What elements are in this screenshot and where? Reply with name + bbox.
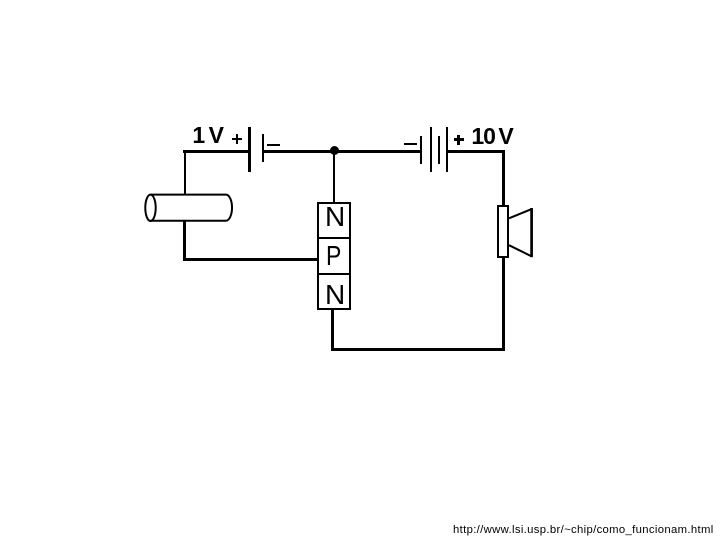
speaker body rectangle xyxy=(497,205,509,257)
wire: top-left horizontal to battery B1 xyxy=(183,150,249,153)
wire: transistor bottom down xyxy=(331,310,334,350)
battery B2 plate 4 (long thick) xyxy=(446,127,449,172)
minus sign of battery B1 xyxy=(267,144,281,146)
wire: left vertical from corner down to microphone xyxy=(184,150,187,195)
battery B2 plate 3 (short) xyxy=(438,136,440,164)
wire: horizontal into P layer xyxy=(183,258,317,261)
wire: junction node down to transistor xyxy=(333,153,335,203)
wire: right vertical from speaker down to bottom wire xyxy=(502,258,505,350)
battery B1 negative plate xyxy=(262,134,264,162)
transistor NPN block outline xyxy=(317,202,351,311)
plus sign of battery B1 xyxy=(232,138,242,140)
wire: battery B2 to top-right corner xyxy=(448,150,505,153)
transistor label N (bottom) xyxy=(325,281,345,309)
label 1 V xyxy=(192,124,205,147)
plus sign of battery B2 xyxy=(454,138,464,140)
wire: right vertical down to speaker xyxy=(502,150,505,206)
junction node dot xyxy=(330,146,340,156)
wire: microphone down to P-layer horizontal xyxy=(183,220,186,260)
wire: junction node to battery B2 xyxy=(334,150,420,153)
speaker horn xyxy=(505,200,541,264)
caption URL text xyxy=(453,525,714,536)
transistor divider line 2 xyxy=(318,273,350,275)
label 10 V xyxy=(471,125,495,148)
battery B2 plate 1 (short) xyxy=(420,136,422,164)
battery B1 positive plate xyxy=(248,127,251,172)
battery B2 plate 2 (long) xyxy=(430,127,432,172)
minus sign of battery B2 xyxy=(404,143,417,145)
wire: battery B1 to junction node xyxy=(263,150,335,153)
transistor label N (top) xyxy=(325,203,345,231)
microphone cylinder xyxy=(138,186,242,230)
transistor label P (middle) xyxy=(326,242,341,270)
wire: bottom horizontal xyxy=(331,348,505,351)
transistor divider line 1 xyxy=(318,237,350,239)
